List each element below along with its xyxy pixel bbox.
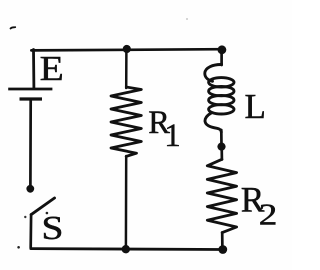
wire R1 top lead <box>125 49 128 88</box>
wire bottom <box>31 247 223 251</box>
wire R1 bottom lead <box>125 156 128 249</box>
switch S contact dot <box>26 185 34 193</box>
inductor L <box>205 64 234 132</box>
node junction dot top R1 <box>123 45 131 53</box>
battery E positive plate <box>8 88 52 91</box>
wire battery to switch <box>29 100 32 185</box>
stray faint dot top middle <box>186 18 188 20</box>
svg-text:1: 1 <box>164 118 181 154</box>
node junction dot top right <box>218 45 227 54</box>
svg-text:2: 2 <box>259 197 278 231</box>
wire inductor to node <box>220 130 223 146</box>
node junction dot bottom R1 <box>122 245 130 253</box>
node junction dot bottom right <box>218 245 227 254</box>
stray ink mark top left <box>11 27 16 28</box>
wire left vertical (top lead to battery) <box>32 50 35 89</box>
label R1 <box>148 105 181 154</box>
svg-text:E: E <box>40 50 64 88</box>
label S <box>41 209 63 246</box>
wire switch to bottom <box>29 215 32 248</box>
resistor R1 <box>111 87 141 156</box>
svg-text:S: S <box>41 209 63 246</box>
node junction dot between L and R2 <box>217 143 225 151</box>
battery E negative plate <box>20 97 43 100</box>
wire inductor top lead <box>220 50 223 65</box>
switch S blade <box>31 198 54 215</box>
wire top <box>31 49 222 50</box>
svg-text:L: L <box>245 87 266 126</box>
stray ink speck bottom left <box>17 246 20 249</box>
label E <box>40 50 64 88</box>
wire R2 bottom lead <box>221 233 224 250</box>
wire R2 top lead <box>220 147 223 160</box>
stray ink speck left of switch pivot <box>24 216 26 218</box>
label R2 <box>241 180 278 232</box>
stray ink speck near switch <box>46 212 49 215</box>
resistor R2 <box>207 159 236 232</box>
